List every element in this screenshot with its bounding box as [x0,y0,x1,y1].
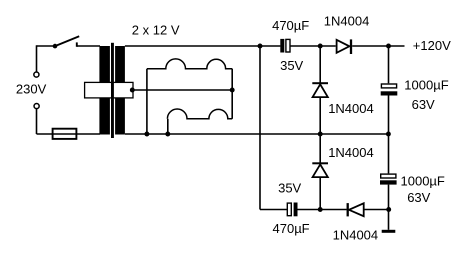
node: transformer center tap [130,88,135,93]
winding L2b (lower humps) [167,109,232,119]
node: rail / diode column junction [318,132,323,137]
wire long vertical x=260 [259,46,261,210]
svg-text:63V: 63V [407,190,430,205]
wire right column top [388,46,390,83]
wire D2 column upper [319,46,321,83]
wire left vertical lower [36,109,38,134]
diode D2 1N4004 (upper vertical, pointing up) [312,83,328,97]
wire bottom rail left [260,209,287,211]
ground [382,230,396,233]
svg-text:35V: 35V [278,180,301,195]
wire top-left to switch [37,45,56,47]
node: bottom rail / diode column junction [318,207,323,212]
capacitor C1 470uF (top, polarized) [280,39,290,53]
svg-text:35V: 35V [280,58,303,73]
node: secondary windings right junction [230,88,235,93]
wire winding L2b left vertical [167,119,169,134]
switch S1 [53,36,79,48]
transformer TR1 secondary winding (solid bar) [115,46,125,135]
wire switch to transformer primary top [77,45,100,47]
wire D1 to +120V terminal [352,45,404,47]
node: top rail / D2 column junction [318,44,323,49]
svg-text:63V: 63V [412,97,435,112]
node: rail / winding L2a junction [144,132,149,137]
svg-text:230V: 230V [16,82,47,97]
wire D3 column lower [319,177,321,210]
transformer tap box [85,82,133,98]
node: bottom rail / right column junction [386,207,391,212]
capacitor C2 470uF (bottom, polarized) [287,203,297,217]
wire right column middle [388,96,390,174]
diode D3 1N4004 (lower vertical, pointing up) [312,163,328,177]
wire D4 to right column [364,209,389,211]
svg-text:1000µF: 1000µF [404,78,448,93]
wire center tap [133,89,232,91]
transformer TR1 primary winding (solid bar) [99,46,110,135]
wire C2 to D4 [298,209,347,211]
wire top rail transformer to C1 [125,45,281,47]
terminal circle lower 230V [34,104,39,109]
wire left vertical upper [36,45,38,71]
svg-text:2 x 12 V: 2 x 12 V [132,23,180,38]
svg-text:+120V: +120V [413,38,451,53]
diode D1 1N4004 (top, pointing right) [337,39,351,54]
node: +120V rail junction [386,44,391,49]
svg-text:1N4004: 1N4004 [333,228,379,243]
svg-text:1N4004: 1N4004 [328,145,374,160]
wire D3 column upper [319,134,321,163]
svg-text:470µF: 470µF [272,18,309,33]
node: top rail / long vertical junction [258,44,263,49]
svg-text:1000µF: 1000µF [401,174,445,189]
winding L2a (upper humps) [147,59,232,69]
node: rail / right column junction [386,132,391,137]
wire C1 to D1 [290,45,335,47]
node: rail / winding L2b junction [165,132,170,137]
diode D4 1N4004 (bottom, pointing left) [348,203,364,216]
wire D2 column lower [319,97,321,134]
svg-text:1N4004: 1N4004 [324,14,370,29]
wire winding L2a left vertical [146,69,148,134]
wire right column bottom [388,185,390,230]
wire middle rail [125,133,389,135]
capacitor C3 1000uF (upper right, polarized) [381,84,398,96]
svg-text:470µF: 470µF [273,221,310,236]
wire secondary right vertical [231,69,233,119]
svg-text:1N4004: 1N4004 [328,101,374,116]
capacitor C4 1000uF (lower right, polarized) [380,174,397,185]
terminal circle upper 230V [34,72,39,77]
transformer core [111,43,114,138]
fuse F1 [37,129,101,139]
